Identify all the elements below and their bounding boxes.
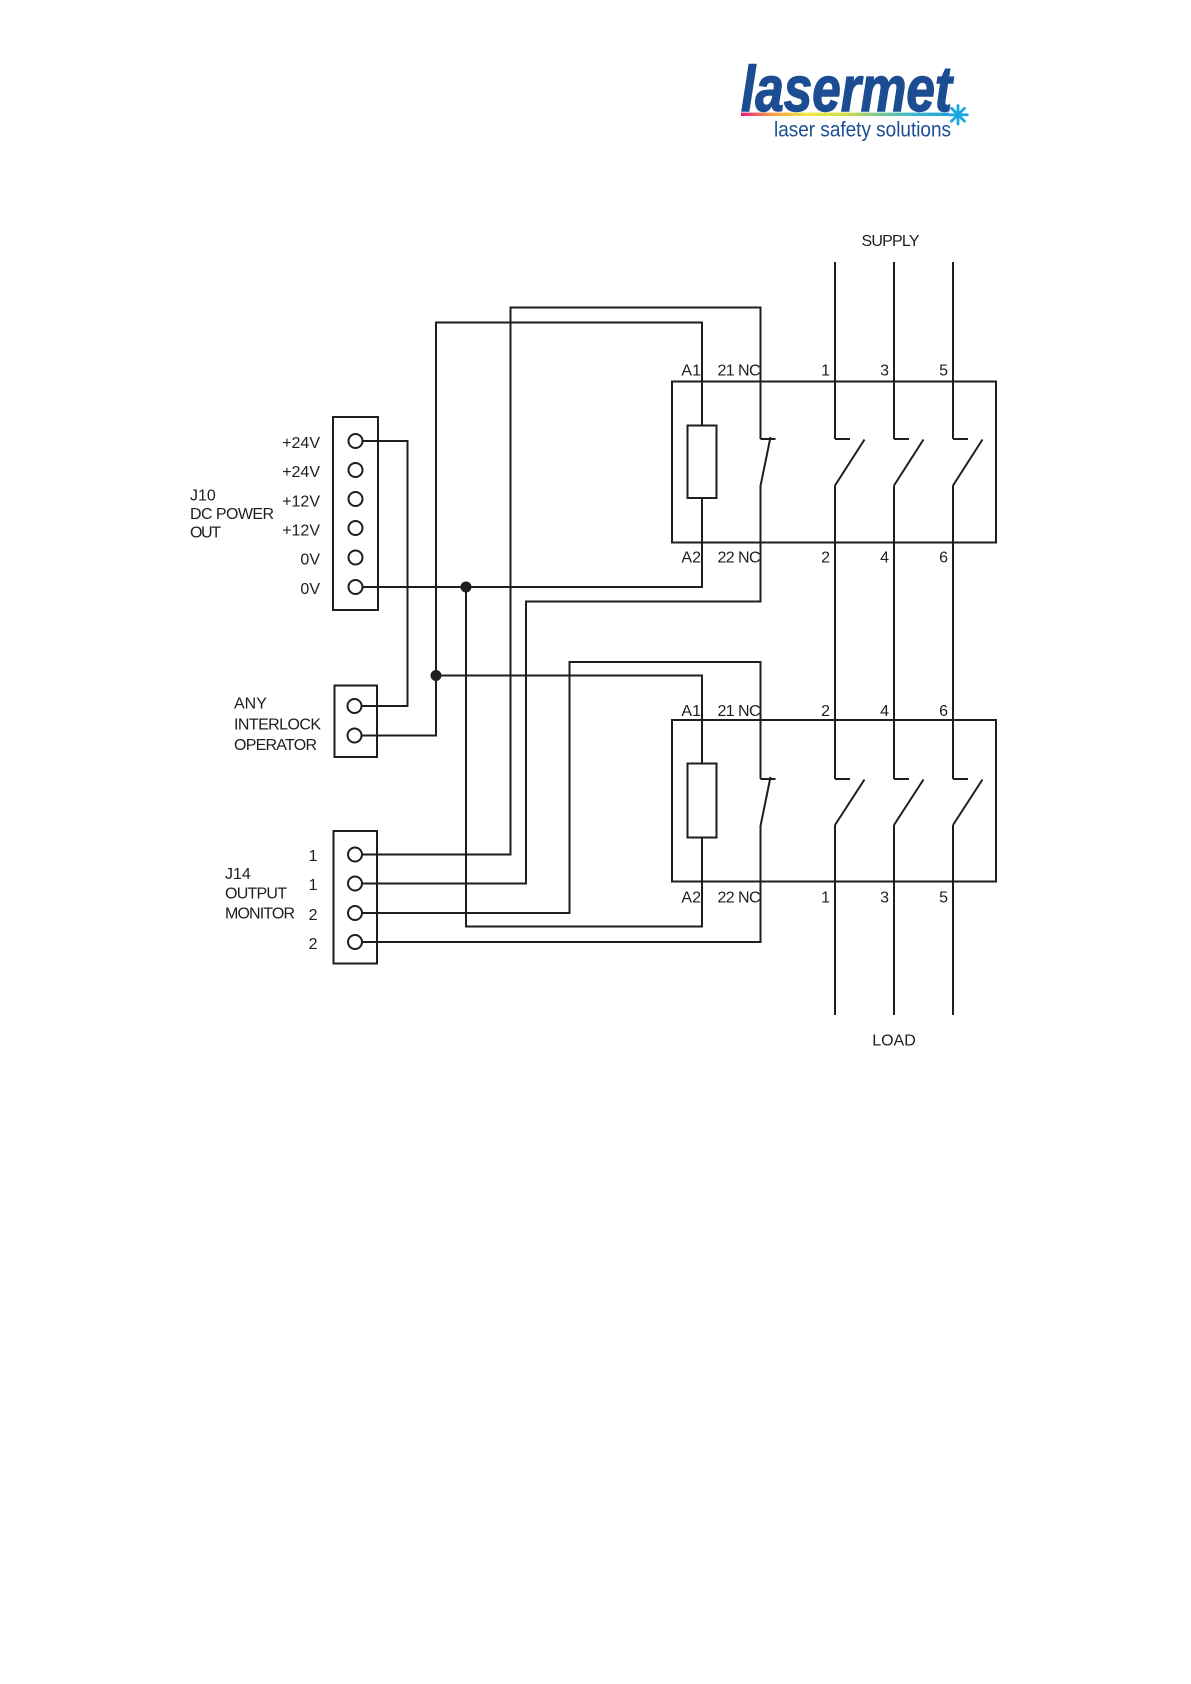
J10 terminal 2 — [349, 463, 363, 477]
svg-text:1: 1 — [309, 848, 318, 865]
svg-text:MONITOR: MONITOR — [225, 906, 295, 923]
J14 terminal 2 — [348, 877, 362, 891]
wire 0V node to coil K2 A2 — [466, 587, 702, 927]
wire coil K1 A1 to interlock pin 2 — [362, 323, 703, 736]
svg-text:1: 1 — [821, 363, 830, 380]
svg-text:5: 5 — [939, 363, 948, 380]
J14 terminal 4 — [348, 935, 362, 949]
logo starburst — [949, 106, 968, 125]
svg-text:J14: J14 — [225, 866, 251, 883]
svg-text:0V: 0V — [300, 552, 320, 569]
J14 terminal 3 — [348, 906, 362, 920]
J10 terminal 6 — [349, 580, 363, 594]
contactor K1 body — [672, 382, 996, 543]
svg-text:1: 1 — [309, 877, 318, 894]
contact 5-6 K1 tick — [953, 438, 968, 440]
connector ANY INTERLOCK box — [335, 686, 378, 758]
svg-text:OUTPUT: OUTPUT — [225, 886, 287, 903]
svg-text:laser safety solutions: laser safety solutions — [774, 119, 951, 142]
contact 3-4 K1 tick — [894, 438, 909, 440]
junction dot interlock net — [431, 670, 442, 681]
contact 1-2 K1 mover — [835, 440, 865, 486]
svg-text:21 NC: 21 NC — [718, 363, 761, 380]
svg-text:A2: A2 — [681, 550, 701, 567]
supply line L3 lower — [952, 825, 954, 1015]
svg-text:1: 1 — [821, 890, 830, 907]
contact 2-1 K2 mover — [835, 780, 865, 826]
J10 terminal 5 — [349, 551, 363, 565]
svg-text:4: 4 — [880, 550, 889, 567]
connector J10 box — [333, 417, 378, 610]
NC contact K1 fixed tick — [761, 438, 776, 440]
svg-text:SUPPLY: SUPPLY — [862, 233, 920, 250]
wire J14 pin 1 to K1 contact 21 — [362, 308, 761, 855]
NC contact K2 mover — [761, 777, 771, 825]
svg-text:INTERLOCK: INTERLOCK — [234, 717, 321, 734]
interlock terminal 1 — [348, 699, 362, 713]
J10 terminal 4 — [349, 521, 363, 535]
svg-text:J10: J10 — [190, 488, 216, 505]
contact 3-4 K1 mover — [894, 440, 924, 486]
svg-text:22 NC: 22 NC — [718, 890, 761, 907]
svg-text:5: 5 — [939, 890, 948, 907]
wire J14 pin 4 to K2 contact 22 — [362, 825, 761, 942]
supply line L2 upper — [893, 262, 895, 439]
svg-text:LOAD: LOAD — [872, 1033, 916, 1050]
coil K2 — [688, 764, 717, 838]
svg-text:6: 6 — [939, 550, 948, 567]
svg-text:OUT: OUT — [190, 525, 221, 542]
supply line L1 upper — [834, 262, 836, 439]
svg-text:21 NC: 21 NC — [718, 703, 761, 720]
svg-text:3: 3 — [880, 363, 889, 380]
svg-text:2: 2 — [821, 550, 830, 567]
junction dot 0V net — [461, 582, 472, 593]
interlock terminal 2 — [348, 729, 362, 743]
svg-text:ANY: ANY — [234, 696, 267, 713]
svg-text:A1: A1 — [681, 703, 701, 720]
coil K1 — [688, 426, 717, 499]
svg-text:2: 2 — [309, 936, 318, 953]
wire J14 pin 2 to K1 contact 22 — [362, 485, 761, 884]
svg-text:2: 2 — [309, 907, 318, 924]
contact 2-1 K2 tick — [835, 778, 850, 780]
NC contact K1 mover — [761, 437, 771, 485]
svg-text:22 NC: 22 NC — [718, 550, 761, 567]
supply line L3 upper — [952, 262, 954, 439]
supply line L2 lower — [893, 825, 895, 1015]
svg-text:+24V: +24V — [282, 435, 320, 452]
supply line L1 lower — [834, 825, 836, 1015]
svg-text:+24V: +24V — [282, 464, 320, 481]
svg-text:2: 2 — [821, 703, 830, 720]
svg-text:+12V: +12V — [282, 494, 320, 511]
contact 5-6 K1 mover — [953, 440, 983, 486]
wire interlock node to coil K2 A1 — [436, 676, 702, 764]
contact 4-3 K2 mover — [894, 780, 924, 826]
svg-text:OPERATOR: OPERATOR — [234, 737, 317, 754]
svg-text:+12V: +12V — [282, 523, 320, 540]
wire J10 +24V to interlock pin 1 — [362, 441, 408, 706]
contact 1-2 K1 tick — [835, 438, 850, 440]
contact 4-3 K2 tick — [894, 778, 909, 780]
wire J10 0V to coil K1 A2 — [363, 498, 703, 587]
svg-text:A1: A1 — [681, 363, 701, 380]
supply line L2 middle — [893, 486, 895, 780]
svg-text:6: 6 — [939, 703, 948, 720]
svg-text:0V: 0V — [300, 581, 320, 598]
J14 terminal 1 — [348, 848, 362, 862]
NC contact K2 fixed tick — [761, 778, 776, 780]
wire J14 pin 3 to K2 contact 21 — [362, 662, 761, 913]
svg-text:DC POWER: DC POWER — [190, 506, 274, 523]
contact 6-5 K2 tick — [953, 778, 968, 780]
svg-text:3: 3 — [880, 890, 889, 907]
connector J14 box — [334, 831, 378, 964]
svg-text:4: 4 — [880, 703, 889, 720]
supply line L3 middle — [952, 486, 954, 780]
J10 terminal 3 — [349, 492, 363, 506]
supply line L1 middle — [834, 486, 836, 780]
contactor K2 body — [672, 720, 996, 882]
J10 terminal 1 — [349, 434, 363, 448]
logo rainbow underline — [741, 113, 949, 116]
svg-text:A2: A2 — [681, 890, 701, 907]
contact 6-5 K2 mover — [953, 780, 983, 826]
